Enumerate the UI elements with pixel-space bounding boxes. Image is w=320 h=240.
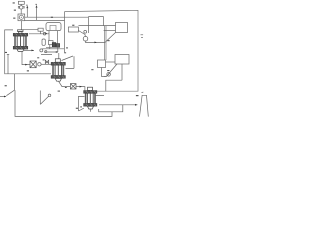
label 17 tick	[141, 35, 144, 38]
box 11	[68, 27, 78, 32]
wire feed arrow into tank	[0, 96, 5, 98]
valve circle on y33.8	[43, 32, 46, 35]
wire valve to B2	[20, 9, 22, 14]
tank T rounded	[46, 23, 61, 31]
vessel V3	[84, 87, 97, 109]
wire line y30.4	[104, 29, 116, 31]
stack	[140, 95, 149, 116]
wire line y33.8	[29, 33, 49, 35]
blower X-box	[30, 61, 36, 68]
wire V2 cone to blower2	[59, 81, 71, 86]
box Bx	[98, 60, 106, 68]
wire line y17.4	[25, 16, 89, 18]
wire under-V3 loop	[91, 105, 123, 112]
wire V2 right	[66, 56, 75, 68]
vessel V2	[51, 59, 65, 81]
arrow into blower	[25, 64, 27, 66]
bowtie valve	[45, 60, 48, 63]
wire Bx down	[102, 68, 107, 77]
arrow on y42.4	[95, 42, 97, 44]
wire V3 to stack	[96, 95, 138, 104]
wire V1 bottom to blower	[22, 51, 30, 64]
wire vertical x105	[105, 26, 106, 60]
wire Br diagonal to x105	[105, 33, 116, 43]
vessel V1	[13, 30, 27, 52]
wire B1 to valve	[20, 4, 22, 5]
box Br top-right	[116, 23, 128, 33]
box 10	[38, 28, 43, 31]
box small	[49, 41, 54, 45]
node junctions top	[103, 25, 105, 27]
wire x8 drop	[7, 55, 9, 74]
mixer agitator	[40, 91, 48, 105]
wire U1 loop	[106, 64, 123, 91]
wire tank down	[49, 31, 58, 44]
box U1	[115, 55, 129, 65]
wire to V2	[41, 63, 51, 65]
labels tiny	[5, 2, 139, 108]
wire cluster lines	[41, 45, 64, 55]
box B2 pump	[18, 14, 25, 21]
wire B2 to V1 neck	[20, 21, 22, 30]
box B1	[18, 1, 24, 4]
wire V1 left bypass	[5, 30, 51, 74]
valve circle after blower	[38, 63, 41, 66]
wire down to V2 neck	[58, 53, 60, 59]
valve V30	[20, 6, 23, 9]
cylinder small	[42, 39, 45, 45]
wire blower2 to V3	[76, 87, 85, 91]
pump P1 circle	[83, 36, 88, 41]
wire pump down and right y42.4	[85, 41, 105, 42]
wire line y20.6	[25, 19, 65, 21]
wire top flue line	[65, 10, 139, 91]
blower2 X-box	[70, 84, 76, 89]
wire V1 outlet right	[24, 49, 34, 51]
wire diag V2 neck up-right	[62, 56, 74, 61]
wire U1 diagonal	[104, 64, 117, 77]
wire V3 left drain	[79, 96, 85, 111]
pump small circle right	[107, 73, 111, 77]
pump block dark	[52, 43, 56, 47]
wire line y25.6	[79, 17, 116, 33]
wire neck to box 10	[23, 30, 41, 34]
wire big box left edge	[64, 12, 66, 53]
node dot	[67, 67, 69, 69]
wire box11 diagonal to pump	[78, 31, 85, 37]
circle small cluster	[40, 49, 43, 52]
wire Bx to U1	[106, 61, 116, 63]
wire vent risers	[27, 7, 36, 20]
wire tank outline	[15, 74, 113, 117]
